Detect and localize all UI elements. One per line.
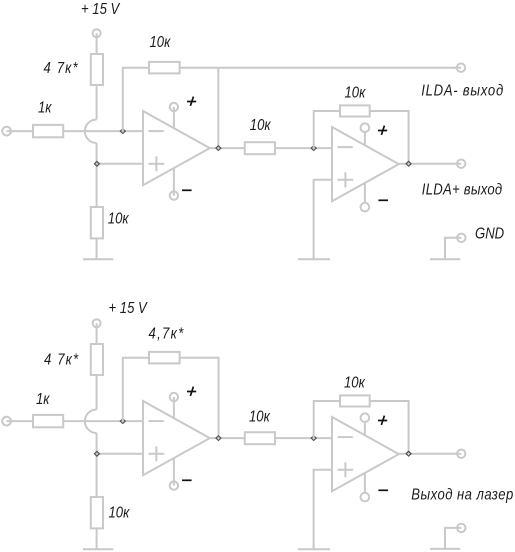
resistor feedback stage1 A	[149, 62, 180, 74]
op-amp U2A V+ label	[378, 130, 387, 132]
wire feedback right to output node B	[180, 358, 219, 438]
output terminal B	[457, 450, 465, 458]
svg-text:4 7к*: 4 7к*	[44, 351, 79, 368]
svg-text:10к: 10к	[344, 374, 366, 391]
op-amp U1B V+ label	[187, 391, 196, 393]
wire node P to op-amp + input A	[97, 163, 143, 165]
resistor 10k feedback stage2 B	[340, 395, 370, 406]
op-amp U1B non-inverting input marker	[149, 453, 165, 455]
wire node P to op-amp + input B	[97, 453, 143, 455]
wire drop feedback to output node A	[217, 68, 219, 148]
op-amp U2B V+ pin	[361, 413, 370, 422]
resistor 10k bias A	[91, 207, 103, 238]
wire feedback2 to output node B	[370, 401, 409, 454]
output terminal A	[457, 160, 465, 168]
junction output node stage2 B	[406, 451, 411, 456]
wire +15V terminal to pull-up resistor B	[96, 323, 98, 344]
resistor 1k input A	[33, 125, 63, 137]
junction node N B	[120, 419, 125, 424]
wire node N up to feedback B	[123, 358, 149, 421]
svg-text:10к: 10к	[108, 210, 130, 227]
op-amp U1A	[143, 111, 210, 185]
resistor 1k input B	[33, 415, 63, 427]
op-amp U2B V- pin	[361, 493, 370, 502]
op-amp U2B inverting input marker	[338, 436, 353, 438]
resistor feedback stage1 B	[149, 352, 180, 364]
op-amp U1B V- pin	[170, 481, 178, 489]
wire 10k bias to ground B	[96, 528, 98, 549]
resistor 4.7k pull-up B	[91, 344, 103, 375]
junction node N2 A	[311, 146, 316, 151]
op-amp U2A V- label	[378, 199, 388, 201]
op-amp U1A V- label	[182, 189, 192, 191]
wire 4.7k to hop B	[96, 375, 98, 410]
svg-text:ILDA- выход: ILDA- выход	[421, 82, 504, 99]
op-amp U1B	[143, 401, 210, 475]
op-amp U2A inverting input marker	[338, 146, 353, 148]
svg-text:10к: 10к	[109, 504, 131, 521]
wire node P to 10k bias B	[96, 454, 98, 497]
svg-text:4,7к*: 4,7к*	[149, 325, 185, 342]
op-amp U2A V- pin	[361, 203, 370, 212]
GND terminal B	[457, 524, 465, 532]
svg-text:1к: 1к	[38, 99, 52, 116]
junction node N2 B	[311, 436, 316, 441]
svg-text:10к: 10к	[150, 34, 172, 51]
op-amp U1A inverting input marker	[149, 130, 164, 132]
junction output node stage1 A	[216, 146, 221, 151]
svg-text:10к: 10к	[249, 408, 271, 425]
resistor 4.7k pull-up A	[91, 54, 103, 85]
wire input terminal to 1k A	[7, 130, 33, 132]
svg-text:4 7к*: 4 7к*	[44, 60, 79, 77]
wire node P to 10k bias A	[96, 164, 98, 207]
op-amp U1B V+ pin	[170, 393, 178, 401]
svg-text:1к: 1к	[36, 391, 50, 408]
wire 4.7k to hop A	[96, 85, 98, 120]
svg-text:+ 15 V: + 15 V	[81, 1, 120, 18]
ground bar under stage2 B	[298, 548, 330, 550]
wire U1B output to series resistor	[210, 437, 245, 439]
input terminal A	[2, 127, 11, 136]
ground bar under bias divider A	[83, 258, 113, 260]
input terminal B	[2, 417, 11, 426]
resistor 10k feedback stage2 A	[340, 105, 370, 116]
op-amp U1A V+ pin	[170, 103, 178, 111]
ground bar GND B	[430, 548, 460, 550]
terminal ILDA- output	[457, 63, 465, 71]
wire hop over input line B	[85, 410, 97, 434]
op-amp U2B V+ label	[378, 420, 387, 422]
op-amp U2A	[332, 127, 399, 201]
svg-text:+ 15 V: + 15 V	[109, 300, 148, 317]
junction node P B	[94, 451, 99, 456]
terminal +15V A	[93, 29, 101, 37]
wire U1A output to series resistor	[210, 147, 245, 149]
op-amp U2B non-inverting input marker	[338, 469, 354, 471]
wire hop to node P A	[96, 143, 98, 164]
resistor 10k series B	[245, 432, 275, 444]
junction node N A	[120, 129, 125, 134]
svg-text:10к: 10к	[250, 117, 272, 134]
wire stage2 output B	[399, 453, 461, 455]
junction output node stage2 A	[406, 161, 411, 166]
op-amp U2A V+ pin	[361, 123, 370, 132]
wire hop to node P B	[96, 433, 98, 454]
wire node N2 up to feedback2 A	[314, 111, 340, 148]
ground bar under bias divider B	[83, 548, 113, 550]
wire 10k bias to ground A	[96, 238, 98, 259]
wire hop over input line A	[85, 120, 97, 144]
op-amp U1A V+ label	[187, 101, 196, 103]
wire stage2 output A	[399, 163, 461, 165]
wire feedback2 to output node A	[370, 111, 409, 164]
wire feedback to ILDA- terminal	[180, 67, 461, 69]
wire series resistor to stage2 - input B	[275, 437, 332, 439]
wire 1k to op-amp - input A	[63, 130, 143, 132]
wire GND terminal to ground	[445, 238, 461, 259]
op-amp U1A V- pin	[170, 191, 178, 199]
op-amp U2B V- label	[378, 489, 388, 491]
svg-text:ILDA+ выход: ILDA+ выход	[422, 181, 503, 198]
resistor 10k series A	[245, 142, 275, 154]
wire ground to stage2 + input A	[314, 180, 332, 259]
op-amp U2B	[332, 417, 399, 491]
junction output node stage1 B	[216, 436, 221, 441]
resistor 10k bias B	[91, 497, 103, 528]
svg-text:GND: GND	[475, 225, 505, 242]
ground bar GND	[430, 258, 460, 260]
op-amp U2A non-inverting input marker	[338, 179, 354, 181]
wire node N2 up to feedback2 B	[314, 401, 340, 438]
wire GND terminal B to ground	[445, 528, 461, 549]
wire series resistor to stage2 - input A	[275, 147, 332, 149]
op-amp U1B inverting input marker	[149, 420, 164, 422]
junction node P A	[94, 161, 99, 166]
wire node N up to feedback A	[123, 68, 149, 131]
GND terminal	[457, 234, 465, 242]
op-amp U1A non-inverting input marker	[149, 163, 165, 165]
op-amp U1B V- label	[182, 479, 192, 481]
wire ground to stage2 + input B	[314, 470, 332, 550]
svg-text:10к: 10к	[345, 84, 367, 101]
wire 1k to op-amp - input B	[63, 420, 143, 422]
ground bar under stage2 A	[298, 258, 330, 260]
terminal +15V B	[93, 319, 101, 327]
wire +15V terminal to pull-up resistor A	[96, 33, 98, 54]
svg-text:Выход на лазер: Выход на лазер	[411, 486, 513, 503]
wire input terminal to 1k B	[7, 420, 33, 422]
